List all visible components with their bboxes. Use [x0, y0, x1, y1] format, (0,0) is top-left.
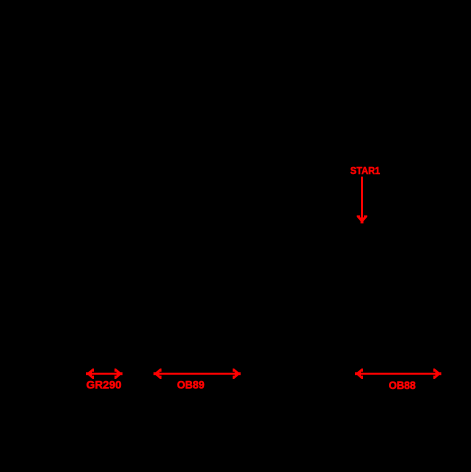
dimension arrow GR290 [86, 368, 123, 379]
callout arrow to STAR1 (pointing down) [357, 177, 368, 224]
label GR290 [86, 379, 121, 391]
label STAR1 [350, 166, 380, 177]
dimension arrow OB88 [355, 368, 441, 379]
svg-text:GR290: GR290 [86, 379, 121, 391]
svg-text:OB88: OB88 [389, 380, 416, 392]
label OB89 [177, 380, 205, 392]
dimension arrow OB89 [154, 368, 241, 379]
svg-text:STAR1: STAR1 [350, 166, 380, 177]
svg-text:OB89: OB89 [177, 380, 205, 392]
label OB88 [389, 380, 416, 392]
